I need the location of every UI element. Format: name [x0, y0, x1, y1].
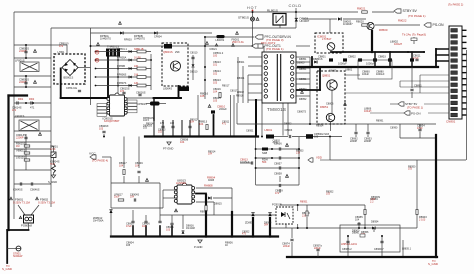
capacitor C8957 [278, 156, 280, 159]
node junction [297, 204, 299, 206]
diode DP80A label [100, 34, 111, 40]
capacitor C8992 label [350, 137, 358, 143]
resistor R8916 label [236, 95, 244, 98]
wire [296, 56, 310, 58]
wire [192, 55, 194, 64]
transistor Q8851 label [322, 74, 331, 78]
page note top right [448, 3, 463, 7]
part C8013 label [213, 60, 221, 66]
resistor RP807S value [134, 82, 139, 85]
wire [28, 223, 30, 230]
feedback network enclosure [340, 225, 400, 252]
node junction [117, 68, 119, 70]
node junction [95, 59, 97, 61]
capacitor C8801 [329, 58, 333, 61]
svg-text:472: 472 [59, 45, 64, 48]
inductor L8004 label [163, 87, 172, 91]
svg-text:103: 103 [143, 127, 148, 130]
photo-coupler PC801B [276, 207, 293, 224]
svg-text:105: 105 [126, 244, 131, 247]
warning mark [232, 44, 235, 47]
wire [295, 8, 297, 28]
capacitor C9804S label [50, 160, 60, 166]
capacitor C8992 [354, 131, 357, 133]
wire (heavy bus) [436, 48, 452, 50]
wire (heavy bus) [311, 57, 313, 67]
resistor QP801.1 value [134, 48, 144, 51]
capacitor C8011 [415, 58, 418, 60]
capacitor C8955 label [355, 215, 363, 221]
wire [14, 155, 51, 157]
svg-text:VCC: VCC [89, 152, 96, 156]
capacitor C8016S [138, 93, 141, 95]
resistor RP807S label [117, 82, 127, 85]
wire [240, 162, 252, 164]
svg-text:P-GND: P-GND [194, 245, 203, 249]
resistor R8959 label [370, 197, 378, 203]
wire [242, 66, 244, 103]
resistor LP8017 label [114, 194, 123, 199]
capacitor C8957 label [274, 162, 282, 166]
capacitor C8958 [278, 166, 280, 169]
part R8015 label [213, 96, 221, 102]
node junction [205, 236, 207, 238]
node junction [329, 136, 331, 138]
svg-text:1N4007S: 1N4007S [134, 36, 145, 40]
warning mark [145, 178, 148, 181]
filter box [358, 60, 392, 79]
varistor SA801 [51, 152, 56, 158]
thermistor C9804 body [52, 164, 56, 173]
capacitor C8911 label [222, 121, 230, 126]
connector PS-ON (lower) [404, 111, 410, 115]
wire ladder rung [96, 68, 152, 70]
wire [419, 132, 421, 139]
bridge rectifier BD801S [62, 60, 78, 76]
wire [102, 156, 111, 158]
wire [53, 146, 55, 152]
svg-text:S-250V T3.15A: S-250V T3.15A [38, 201, 55, 204]
resistor R8907 [205, 206, 207, 211]
svg-text:C8851: C8851 [299, 78, 307, 81]
resistor RP8910S label [143, 117, 154, 122]
wire [51, 27, 296, 29]
diode D8915 [208, 196, 211, 199]
marker RD1 [18, 97, 24, 101]
wire [291, 242, 293, 257]
svg-text:Tb 2Ac (To Page3): Tb 2Ac (To Page3) [402, 33, 426, 37]
node junction [255, 136, 257, 138]
line filter L9011S [19, 120, 39, 131]
node junction [25, 44, 27, 46]
wire [172, 120, 174, 136]
wire (heavy bus) [132, 226, 134, 237]
svg-text:471: 471 [30, 106, 35, 110]
svg-text:1N4756A: 1N4756A [93, 219, 104, 222]
node junction [295, 11, 297, 13]
node junction [95, 68, 97, 70]
wire [256, 157, 299, 159]
wire (heavy bus) [205, 195, 207, 237]
capacitor C8904S label [130, 194, 139, 199]
node junction [297, 227, 299, 229]
wire [110, 157, 112, 163]
warning mark [208, 105, 211, 108]
diode DP80B label [134, 34, 145, 40]
wire [236, 103, 238, 124]
wire [310, 123, 436, 125]
svg-text:D8954: D8954 [371, 221, 379, 224]
node junction [172, 136, 174, 138]
resistor RP805A [137, 59, 146, 62]
transformer TM801S [262, 52, 296, 103]
wire (heavy bus) [111, 235, 278, 237]
wire (rectifier path) [296, 89, 320, 91]
wire [400, 80, 449, 82]
warning mark [19, 216, 22, 219]
capacitor C8931 [170, 222, 173, 224]
svg-text:C8903: C8903 [285, 128, 293, 132]
warning mark [10, 197, 13, 200]
warning mark [285, 143, 288, 146]
capacitor C8905 label [126, 222, 134, 228]
capacitor C8802 lead [344, 66, 346, 68]
capacitor C8903 sym [288, 135, 290, 138]
diode D8010 [192, 64, 195, 67]
capacitor C8958 label [274, 172, 282, 176]
capacitor C8957a sym [316, 248, 319, 250]
svg-text:C8957: C8957 [274, 162, 282, 166]
svg-text:0.015uF: 0.015uF [240, 160, 250, 164]
relay RL801S label [267, 9, 278, 13]
svg-text:TM801S: TM801S [267, 107, 286, 112]
wire [53, 158, 55, 165]
wire [196, 187, 232, 189]
MOSFET Q8001S enclosure [162, 43, 188, 86]
svg-text:Q8851: Q8851 [322, 74, 331, 78]
svg-text:S_GND: S_GND [428, 262, 438, 266]
wire [372, 11, 394, 13]
wire (heavy bus) [269, 218, 271, 237]
part D8851 label [299, 58, 307, 61]
svg-text:RD1: RD1 [18, 97, 24, 101]
resistor RP806S value [134, 73, 139, 76]
wire to ferrite [18, 205, 25, 215]
wire [14, 116, 51, 118]
wire (heavy bus) [9, 94, 28, 96]
capacitor C8011 label [413, 54, 421, 60]
wire (heavy bus) [171, 226, 173, 237]
diode D8954c [372, 226, 375, 229]
inductor L9012S label [16, 156, 25, 160]
warning mark [33, 80, 36, 83]
node junction [330, 66, 332, 68]
wire [256, 167, 299, 169]
wire [347, 236, 349, 257]
warning mark [206, 42, 209, 45]
node junction [359, 66, 361, 68]
capacitor C9016S [30, 101, 32, 104]
wire [399, 81, 401, 87]
wire [205, 36, 254, 38]
svg-text:103: 103 [326, 193, 331, 196]
warning mark [33, 49, 36, 52]
wire [25, 134, 27, 146]
wire [159, 183, 161, 215]
warning mark [38, 132, 41, 135]
wire [373, 228, 375, 232]
wire [367, 135, 369, 138]
IC8001S label [103, 117, 113, 121]
capacitor C8015 label [120, 87, 130, 93]
wire [416, 160, 418, 228]
svg-text:L8001: L8001 [265, 128, 273, 132]
diode at QP801.1 [129, 50, 132, 53]
node junction [204, 66, 206, 68]
capacitor C8807S label [297, 111, 306, 114]
node junction [255, 157, 257, 159]
ferrite PO801S label [21, 224, 32, 228]
svg-text:STBY 5V: STBY 5V [403, 9, 418, 13]
svg-text:CP80-04s: CP80-04s [66, 87, 78, 90]
svg-text:BD801S: BD801S [64, 76, 74, 80]
resistor R9015S label [16, 142, 26, 148]
svg-text:104: 104 [180, 140, 185, 144]
inductor L8003 label [216, 39, 225, 42]
wire [248, 56, 262, 58]
node junction [261, 136, 263, 138]
inductor L8003 [216, 35, 224, 38]
capacitor C9046S label [30, 188, 40, 192]
svg-text:D8051: D8051 [320, 105, 329, 109]
svg-text:220uF: 220uF [219, 107, 227, 111]
wire [303, 18, 337, 20]
node junction [364, 227, 366, 229]
capacitor C8955b [357, 222, 360, 224]
resistor R8020 [362, 24, 368, 26]
wire [233, 95, 235, 136]
wire [381, 236, 383, 257]
MOSFET Q8001S [171, 61, 181, 71]
thermistor THR801S label [107, 45, 119, 49]
capacitor C8956 [278, 147, 280, 150]
TO S_GND right [432, 259, 436, 263]
wire [248, 92, 262, 94]
MOSFET part no [175, 51, 180, 54]
wire relay pin [279, 25, 281, 28]
note to page 3 [402, 33, 426, 37]
svg-text:103: 103 [314, 135, 319, 138]
node junction [402, 256, 404, 258]
svg-text:VDD: VDD [316, 156, 322, 160]
node junction [204, 36, 206, 38]
diode D8916 label [186, 224, 195, 230]
thermistor ST801S [251, 17, 255, 21]
capacitor C8967 label [374, 248, 384, 251]
wire (heavy bus) [436, 60, 452, 62]
resistor RH808 label [204, 184, 213, 188]
svg-text:R8021: R8021 [357, 7, 366, 11]
connector VCC [90, 155, 96, 159]
part CP801.2 label [213, 51, 224, 57]
capacitor C8803 label [378, 55, 386, 59]
wire (heavy bus) [436, 54, 452, 56]
capacitor C8015S [122, 91, 125, 93]
capacitor C8909 label [135, 161, 143, 167]
diode D8001 [338, 17, 341, 20]
inductor L9012S [24, 159, 30, 161]
varistor V9801S [24, 152, 30, 154]
wire (heavy) [108, 97, 110, 99]
wire [7, 248, 16, 250]
wire (heavy bus) [435, 49, 437, 67]
svg-text:103: 103 [213, 81, 218, 84]
resistor RP80B value [134, 65, 139, 68]
capacitor C8952 label [242, 231, 250, 236]
svg-text:(To PAGE 2): (To PAGE 2) [448, 3, 463, 7]
capacitor C8902 label [273, 140, 281, 145]
svg-text:LTV817: LTV817 [322, 37, 332, 41]
connector VDD [308, 158, 313, 162]
part C8014 label [213, 69, 221, 75]
svg-text:SCREW: SCREW [13, 255, 23, 258]
IC8001S pin tags left [97, 104, 107, 107]
capacitor C8906X [102, 130, 105, 132]
net label COLD [289, 3, 302, 8]
node junction [25, 102, 27, 104]
resistor R8021 label [357, 7, 366, 11]
node junction [189, 136, 191, 138]
connector PFC-OUT1 [255, 44, 284, 51]
wire [291, 228, 293, 238]
resistor R8917 [123, 170, 125, 175]
node junction [381, 235, 383, 237]
ferrite PO801S [24, 215, 34, 223]
svg-text:56K: 56K [262, 161, 267, 164]
wire [110, 163, 112, 208]
node junction [435, 256, 437, 258]
capacitor C9045S [19, 182, 21, 185]
resistor R8903 label [419, 215, 427, 221]
wire (heavy bus) [213, 115, 215, 137]
svg-text:C9046S: C9046S [30, 188, 40, 192]
svg-text:RP80B: RP80B [117, 65, 125, 68]
wire [237, 123, 310, 125]
svg-text:RP805A: RP805A [117, 56, 127, 59]
wire [345, 74, 360, 76]
capacitor C8910 label [217, 105, 226, 109]
wire [25, 45, 27, 58]
svg-text:ST801S: ST801S [238, 16, 249, 20]
svg-text:054: 054 [264, 224, 269, 227]
diode D8954c label [371, 221, 379, 224]
inductor SD8 label [262, 151, 268, 155]
node junction [381, 256, 383, 258]
wire ladder right rail [150, 54, 152, 90]
node junction [153, 136, 155, 138]
wire [145, 215, 147, 221]
opto-coupler IC8001 label [317, 35, 327, 39]
wire (heavy gnd) [7, 229, 28, 231]
resistor R8914 label [146, 123, 154, 126]
resistor R8917 label [119, 161, 127, 167]
capacitor C9045S label [13, 188, 23, 192]
wire [138, 137, 140, 169]
zener ZD8012 [109, 210, 112, 213]
svg-text:2200P: 2200P [350, 140, 358, 143]
capacitor C8974 label [282, 242, 290, 246]
warning mark [36, 197, 39, 200]
svg-text:1000uF: 1000uF [366, 62, 375, 66]
warning mark [344, 103, 347, 106]
wire [25, 76, 27, 87]
node junction [103, 136, 105, 138]
capacitor CP8010 label [59, 42, 69, 48]
wire (heavy bus) [252, 218, 254, 237]
shunt CP8002 label [314, 132, 329, 138]
diode D8801S sym [314, 61, 317, 64]
node junction [358, 227, 360, 229]
diode DP80A [120, 31, 123, 34]
opto-coupler IC8001 part no [322, 37, 332, 41]
capacitor C9016S label [30, 106, 35, 110]
resistor LP8017 [118, 199, 124, 201]
inductor L8001 [266, 135, 274, 139]
wire [411, 67, 413, 88]
svg-text:C8806: C8806 [326, 103, 334, 106]
inductor SD8 [262, 148, 268, 151]
node junction [204, 79, 206, 81]
inductor L8801 label [345, 68, 353, 72]
wire (heavy bus) [298, 66, 438, 68]
wire [355, 124, 357, 132]
warning mark [285, 174, 288, 177]
inductor L8802 value [394, 42, 402, 46]
wire [256, 148, 299, 150]
svg-text:(TO PAGE 1): (TO PAGE 1) [266, 47, 284, 51]
wire ladder rung [96, 51, 152, 53]
resistor R8016 label [200, 92, 209, 98]
wire [248, 99, 262, 101]
svg-text:104: 104 [190, 121, 195, 124]
svg-text:101: 101 [213, 63, 218, 66]
svg-text:D8010: D8010 [190, 71, 198, 74]
connector STBY 5V [394, 9, 417, 13]
resistor R8016 [219, 93, 221, 98]
svg-text:L8801: L8801 [345, 68, 353, 72]
svg-text:D8952: D8952 [284, 123, 292, 126]
resistor R8500 label [379, 28, 388, 32]
node junction [204, 45, 206, 47]
svg-text:D8803: D8803 [297, 62, 305, 65]
node junction [347, 256, 349, 258]
capacitor C8860 label [362, 70, 370, 76]
diode D8916 [182, 231, 185, 234]
svg-text:471: 471 [222, 123, 227, 126]
svg-text:L9012S: L9012S [16, 156, 25, 160]
capacitor C9013S [24, 136, 27, 138]
svg-text:R8852: R8852 [299, 88, 307, 91]
line filter L9011S label [15, 114, 24, 118]
wire [14, 169, 51, 171]
svg-text:C8021: C8021 [209, 48, 217, 51]
wire (heavy bus) [231, 212, 233, 237]
svg-text:1000uF: 1000uF [376, 73, 385, 76]
inductor L8805 label [402, 248, 412, 251]
capacitor C8956 label [274, 142, 282, 146]
wire [270, 227, 417, 229]
wire [296, 61, 310, 63]
